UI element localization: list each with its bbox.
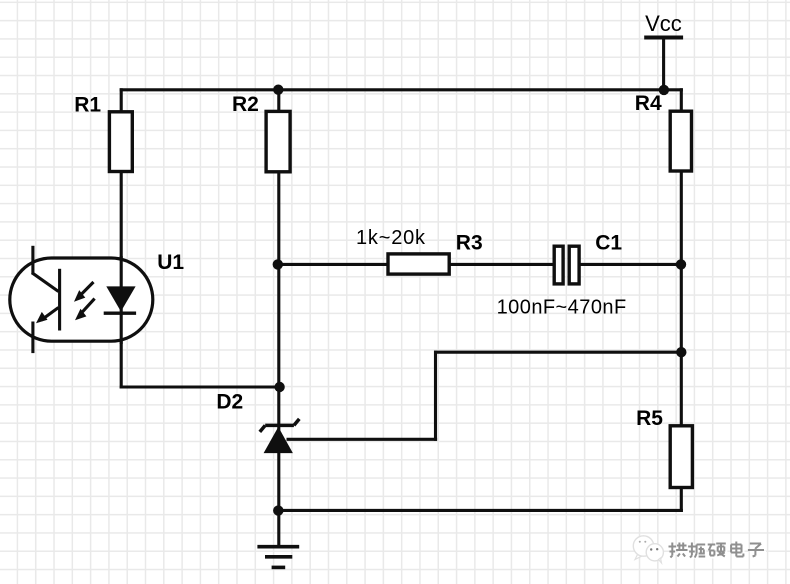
junction dot middle rail / R4 branch [676,347,686,357]
watermark text [669,542,767,560]
resistor R4 [635,92,692,171]
wire feedback vertical [434,351,437,441]
wire R4 / R5 branch vertical [680,88,683,512]
svg-text:R4: R4 [635,92,662,115]
svg-text:R5: R5 [636,407,663,430]
watermark icon [633,536,663,563]
resistor R3 [388,232,483,275]
junction dot top rail / Vcc [659,85,669,95]
wire R1 branch vertical [120,88,123,388]
wire C1 rail right segment [580,263,683,266]
opto-coupler U1 [10,246,185,353]
resistor R2 [232,93,290,172]
power Vcc symbol [644,11,683,91]
svg-text:C1: C1 [595,232,622,255]
wire bottom rail [277,509,683,512]
svg-text:1k~20k: 1k~20k [356,227,426,249]
wire feedback lower horizontal to D2 [287,438,438,441]
svg-text:R1: R1 [74,93,101,116]
wire opto emitter to D2 node [120,385,281,388]
junction dot R3 rail / R2 branch [273,259,283,269]
wire feedback middle rail [434,351,683,354]
junction dot C1 rail / R4 branch [676,259,686,269]
capacitor C1 [554,232,622,284]
resistor R1 [74,93,132,171]
junction dot bottom rail [273,505,283,515]
svg-text:Vcc: Vcc [645,11,682,36]
resistor R5 [636,407,692,488]
svg-text:U1: U1 [157,251,184,274]
wire R3 rail left segment [277,263,553,266]
junction dot D2 node [274,382,284,392]
svg-text:D2: D2 [216,391,243,414]
svg-text:100nF~470nF: 100nF~470nF [497,297,627,319]
svg-text:R2: R2 [232,93,259,116]
svg-text:R3: R3 [456,232,483,255]
ground [257,547,299,568]
zener diode D2 [216,391,299,453]
wire top rail [120,88,683,91]
wire R2 / D2 branch vertical [277,88,280,547]
junction dot top rail / R2 [273,85,283,95]
